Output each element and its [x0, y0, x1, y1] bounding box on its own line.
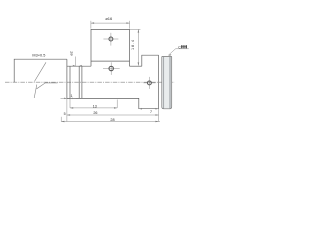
- wire vertical B: [69, 66, 71, 98]
- dimension 13: [70, 98, 117, 108]
- body right section top edge: [130, 65, 142, 67]
- svg-text:C: C: [178, 45, 181, 49]
- dimension dia16: [91, 21, 130, 29]
- svg-text:5: 5: [64, 112, 66, 116]
- dimension 28: [61, 117, 160, 122]
- label C50 text: [178, 45, 187, 49]
- body right edge: [158, 55, 160, 108]
- flange cylinder: [162, 56, 172, 108]
- break line: [34, 62, 57, 98]
- dimension 26: [67, 98, 159, 121]
- wire neck top edge: [67, 65, 91, 67]
- svg-text:18.4: 18.4: [131, 40, 135, 50]
- flange plate bottom face line: [91, 60, 130, 62]
- svg-text:26: 26: [93, 111, 97, 115]
- stud M3 thread outline: [14, 59, 67, 82]
- node neck step: [66, 59, 68, 98]
- svg-text:M3×0.5: M3×0.5: [32, 54, 45, 58]
- svg-text:13: 13: [93, 104, 97, 108]
- dimension 18.4: [130, 29, 141, 65]
- label C50 leader: [168, 49, 189, 56]
- hole H3 (right): [143, 77, 155, 89]
- hole H2 (lower): [103, 62, 120, 75]
- body bottom outline with step: [67, 98, 159, 108]
- svg-text:ø2: ø2: [69, 51, 73, 55]
- svg-text:ø16: ø16: [105, 16, 113, 21]
- flange plate square (front projected): [91, 29, 130, 66]
- collar lines: [79, 66, 82, 98]
- raised boss before flange: [142, 55, 159, 66]
- centerline: [5, 81, 175, 83]
- svg-text:1: 1: [71, 94, 73, 98]
- hole H1 (upper): [103, 33, 118, 46]
- dimension dia2 groove: [74, 57, 76, 67]
- svg-text:7: 7: [150, 110, 152, 114]
- svg-text:28: 28: [110, 118, 114, 122]
